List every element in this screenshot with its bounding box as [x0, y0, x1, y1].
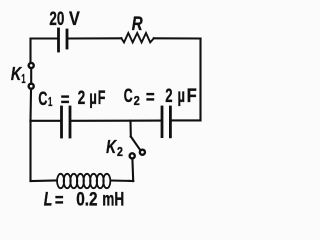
inductor L coil loops [57, 174, 110, 188]
switch K1 blade [30, 69, 32, 83]
switch K2 right terminal [140, 150, 145, 155]
capacitor C2 left plate [161, 107, 164, 137]
svg-text:F: F [187, 86, 197, 107]
wire battery to resistor [69, 37, 122, 39]
svg-text:2: 2 [78, 88, 86, 109]
wire bottom left [31, 179, 57, 182]
wire K2 bottom terminal to bottom wire [131, 159, 134, 181]
svg-text:K: K [106, 137, 118, 157]
svg-text:µ: µ [89, 88, 97, 109]
svg-text:0.2: 0.2 [76, 190, 97, 211]
svg-text:2: 2 [165, 86, 172, 107]
svg-text:V: V [69, 9, 80, 30]
svg-text:=: = [61, 90, 70, 111]
switch K2 left terminal [130, 153, 135, 158]
svg-text:1: 1 [21, 71, 25, 86]
wire right vertical [199, 39, 201, 121]
svg-text:C: C [38, 89, 47, 110]
svg-text:2: 2 [117, 144, 123, 159]
svg-text:F: F [98, 88, 106, 109]
wire K2 branch down [129, 121, 131, 137]
capacitor C1 right plate [69, 107, 72, 137]
wire bottom right [111, 179, 133, 182]
svg-text:=: = [146, 87, 155, 108]
capacitor C1 left plate [60, 107, 63, 137]
wire top-left to battery [31, 39, 58, 63]
capacitor C2 right plate [169, 107, 172, 137]
switch K2 blade [131, 137, 140, 150]
svg-text:2: 2 [134, 93, 140, 108]
svg-text:µ: µ [178, 86, 185, 107]
switch K1 top terminal [29, 63, 34, 68]
resistor R [121, 33, 154, 42]
wire C2 to right vertical [172, 119, 201, 121]
wire middle left to C1 [31, 120, 61, 122]
svg-text:L: L [44, 190, 53, 211]
battery B1 20 V right plate [66, 30, 69, 48]
battery B1 20 V left plate [57, 29, 60, 51]
svg-text:R: R [132, 14, 143, 35]
wire C1 to C2 [72, 120, 161, 122]
wire K1 to middle junction [29, 90, 32, 121]
svg-text:=: = [55, 191, 64, 212]
switch K1 bottom terminal [29, 84, 34, 89]
wire left vertical lower [29, 121, 31, 181]
wire resistor to top-right corner [154, 37, 201, 39]
svg-text:1: 1 [48, 94, 52, 109]
svg-text:20: 20 [49, 9, 64, 30]
svg-text:C: C [124, 86, 133, 107]
svg-text:mH: mH [102, 190, 124, 211]
